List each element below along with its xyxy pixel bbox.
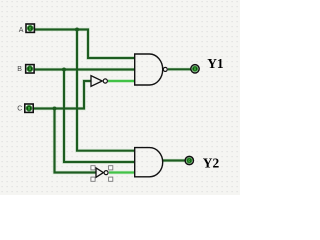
svg-text:C: C — [17, 106, 22, 113]
svg-text:Y2: Y2 — [203, 155, 220, 170]
svg-text:B: B — [17, 66, 22, 73]
svg-text:Y1: Y1 — [207, 56, 223, 71]
svg-text:A: A — [19, 27, 24, 34]
